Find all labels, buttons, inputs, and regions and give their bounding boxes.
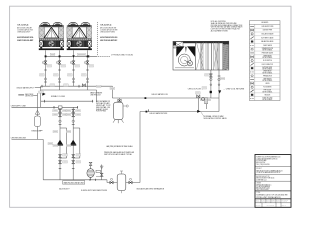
svg-text:LINE PER CODE: LINE PER CODE [25,96,33,98]
svg-text:CHW 44/54 DEG F SCHED: CHW 44/54 DEG F SCHED [100,31,115,33]
svg-text:NORMALLY CLOSED: NORMALLY CLOSED [51,95,66,98]
svg-text:REV 0: REV 0 [282,204,287,206]
svg-text:ALL EQUIPMENT SHOWN: ALL EQUIPMENT SHOWN [211,30,229,33]
svg-text:DWG: DWG [276,199,279,201]
svg-text:TITLE: TITLE [256,192,260,194]
svg-text:0000: 0000 [271,201,275,203]
svg-text:BROOKLYN NEW YORK 11201: BROOKLYN NEW YORK 11201 [256,178,274,180]
svg-text:WITH SYMBOL: WITH SYMBOL [262,99,272,101]
svg-text:TEL 718 555 0100: TEL 718 555 0100 [256,189,268,191]
svg-text:EXPANSION TANK: EXPANSION TANK [32,129,42,132]
svg-text:0000: 0000 [266,201,270,203]
svg-text:(TYP FOR EACH CONNECT TO CHILL: (TYP FOR EACH CONNECT TO CHILLER) [111,53,133,56]
svg-text:CONSULTING ENGINEERS SUITE 200: CONSULTING ENGINEERS SUITE 200 [256,158,277,160]
svg-text:WITH SYMBOL: WITH SYMBOL [262,91,272,93]
svg-text:TEL (718) 555-0199: TEL (718) 555-0199 [256,164,269,166]
svg-text:WITH SYMBOL: WITH SYMBOL [262,50,272,52]
svg-text:MODULATING CONTROL VALVE: MODULATING CONTROL VALVE [204,117,228,120]
svg-text:ZONE R6B C2-4: ZONE R6B C2-4 [256,179,266,181]
svg-text:LEGEND: LEGEND [261,22,268,24]
svg-text:460V/3PH/60HZ MCA 300: 460V/3PH/60HZ MCA 300 [100,36,117,39]
svg-text:0000: 0000 [276,201,280,203]
svg-text:FLOW METER: FLOW METER [263,87,272,89]
svg-text:WALL (OR BELOW) TYP: WALL (OR BELOW) TYP [59,187,70,190]
svg-text:WITH SYMBOL: WITH SYMBOL [262,72,272,74]
svg-text:WITH SYMBOL: WITH SYMBOL [262,80,272,82]
svg-text:← CHW COIL RETURN: ← CHW COIL RETURN [223,88,245,90]
svg-text:CHW COIL FLOW →: CHW COIL FLOW → [188,88,203,90]
svg-text:LAB (PRE) EXPANSION TANK SHALL: LAB (PRE) EXPANSION TANK SHALL [106,145,133,148]
svg-text:VENT WITH ISOLATION VALVE TYPI: VENT WITH ISOLATION VALVE TYPICAL [104,153,132,156]
svg-text:JOB: JOB [271,199,274,201]
svg-text:460V/3PH/60HZ MCA: 460V/3PH/60HZ MCA [17,36,34,39]
svg-text:WITH SYMBOL: WITH SYMBOL [262,57,272,59]
svg-text:BLOCK 2043 LOT 12: BLOCK 2043 LOT 12 [256,176,269,178]
svg-text:CH-2 (CH-1): CH-2 (CH-1) [100,24,111,26]
svg-text:CHW 44/54 DEG F: CHW 44/54 DEG F [17,31,30,33]
svg-text:CHILLED WATER SUPPLY: CHILLED WATER SUPPLY [16,87,34,90]
svg-text:REDUCER: REDUCER [265,94,271,96]
svg-text:CHILLED WATER FLOW: CHILLED WATER FLOW [151,93,168,96]
svg-text:FOR PIPING: FOR PIPING [96,111,107,113]
svg-text:BROOKLYN NY: BROOKLYN NY [256,162,265,164]
svg-text:MAX FUSE 400 AMP: MAX FUSE 400 AMP [17,39,34,42]
svg-text:CHW SUPPLY PIPE: CHW SUPPLY PIPE [261,26,273,28]
svg-text:M-401.00: M-401.00 [282,201,288,203]
svg-text:MAIN FILLING LINE AT UNIT: MAIN FILLING LINE AT UNIT [64,182,84,185]
svg-text:UNION: UNION [265,83,269,85]
svg-text:MAX FUSE 400 AMP NEC: MAX FUSE 400 AMP NEC [100,39,118,42]
svg-text:ROBERT GILLIG PE ENGINEERING L: ROBERT GILLIG PE ENGINEERING LTD [256,157,281,159]
svg-text:OWNER: OWNER [256,182,261,184]
svg-text:CHW SUPPLY LINE: CHW SUPPLY LINE [11,105,27,107]
svg-text:LINE PER CODE: LINE PER CODE [90,94,101,96]
svg-text:PROJECT: PROJECT [256,168,262,170]
svg-text:WITH SYMBOL: WITH SYMBOL [262,69,272,71]
svg-text:FLOW SWITCH: FLOW SWITCH [263,60,272,62]
svg-text:INDICATES AIR VENT SEPARATOR: INDICATES AIR VENT SEPARATOR [137,187,165,190]
svg-text:CHILLED WATER RETURN: CHILLED WATER RETURN [149,112,168,115]
svg-text:CHW RET PIPE: CHW RET PIPE [263,30,273,32]
svg-text:0000: 0000 [256,201,260,203]
svg-text:CH-1 (CH-2): CH-1 (CH-2) [17,24,28,26]
svg-text:CHW RETURN LINE: CHW RETURN LINE [11,138,27,140]
svg-text:FLEX CONNECTOR: FLEX CONNECTOR [262,64,274,66]
svg-text:FLOATING SUPPLY AND DRAIN PIPE: FLOATING SUPPLY AND DRAIN PIPE SIZE [81,189,108,192]
